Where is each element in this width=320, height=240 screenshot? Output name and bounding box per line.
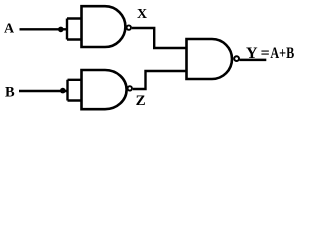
wire bracket tying U2 inputs bbox=[68, 80, 82, 101]
wire Z from U2 to U3 bottom input bbox=[133, 71, 186, 89]
wire B input bbox=[19, 90, 68, 92]
svg-text:Z: Z bbox=[136, 93, 146, 109]
U2 output bubble bbox=[128, 86, 132, 90]
U3 output bubble bbox=[234, 56, 239, 61]
U1 output bubble bbox=[127, 25, 131, 29]
NAND gate U3 (output) bbox=[187, 39, 233, 79]
NAND gate U1 (top) bbox=[82, 6, 126, 47]
junction dot on A bbox=[58, 27, 64, 33]
junction dot on B bbox=[60, 88, 66, 94]
wire Y output bbox=[240, 59, 267, 62]
svg-text:A: A bbox=[4, 22, 15, 37]
wire A input bbox=[20, 28, 68, 30]
svg-text:Y=A+B: Y=A+B bbox=[246, 45, 294, 62]
wire bracket tying U1 inputs bbox=[67, 19, 81, 40]
svg-text:X: X bbox=[137, 7, 147, 22]
wire X from U1 to U3 top input bbox=[132, 28, 186, 48]
svg-text:B: B bbox=[5, 85, 15, 101]
NAND gate U2 (bottom) bbox=[82, 70, 127, 109]
